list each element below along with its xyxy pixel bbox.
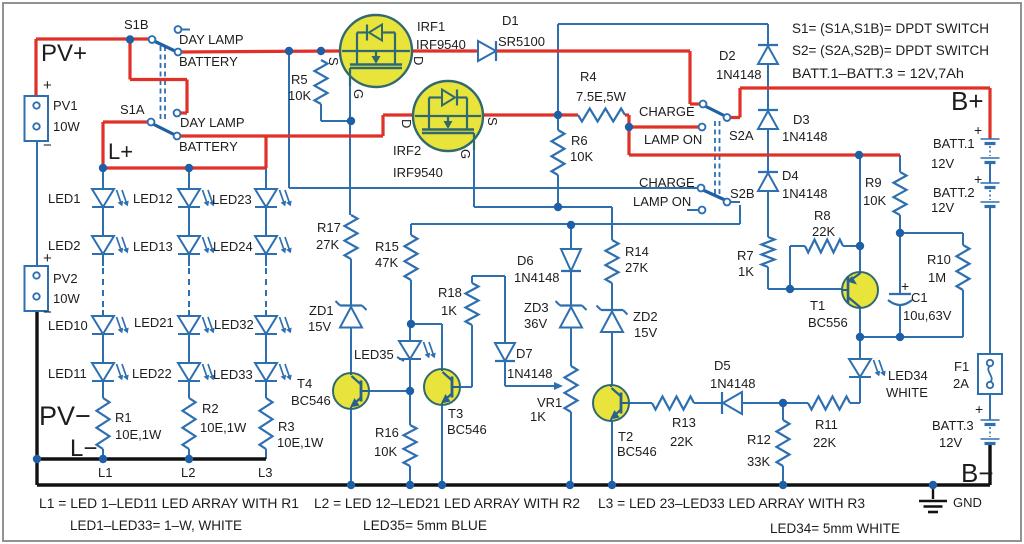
svg-text:L−: L− (70, 435, 97, 462)
svg-text:R6: R6 (571, 133, 588, 148)
svg-text:1N4148: 1N4148 (710, 376, 756, 391)
svg-text:S2A: S2A (729, 128, 754, 143)
svg-text:GND: GND (953, 495, 982, 510)
svg-text:R7: R7 (737, 248, 754, 263)
svg-text:ZD1: ZD1 (309, 303, 334, 318)
svg-text:D4: D4 (782, 168, 799, 183)
svg-text:S2B: S2B (730, 186, 755, 201)
svg-text:R15: R15 (375, 239, 399, 254)
svg-text:R12: R12 (747, 432, 771, 447)
svg-text:22K: 22K (812, 224, 835, 239)
svg-text:1N4148: 1N4148 (514, 270, 560, 285)
svg-text:10K: 10K (374, 444, 397, 459)
svg-text:1K: 1K (738, 264, 754, 279)
svg-text:R5: R5 (291, 72, 308, 87)
svg-text:LED12: LED12 (133, 191, 173, 206)
svg-text:27K: 27K (316, 237, 339, 252)
svg-text:10E,1W: 10E,1W (200, 420, 247, 435)
svg-text:36V: 36V (524, 316, 547, 331)
svg-text:+: + (901, 278, 909, 294)
svg-text:BC546: BC546 (291, 393, 331, 408)
svg-text:10W: 10W (53, 291, 80, 306)
svg-text:DAY LAMP: DAY LAMP (180, 115, 245, 130)
svg-text:DAY LAMP: DAY LAMP (179, 32, 244, 47)
svg-text:BATTERY: BATTERY (179, 54, 238, 69)
svg-text:T3: T3 (448, 406, 463, 421)
svg-text:10W: 10W (53, 119, 80, 134)
svg-text:CHARGE: CHARGE (639, 104, 695, 119)
svg-text:LED21: LED21 (134, 315, 174, 330)
svg-text:22K: 22K (670, 434, 693, 449)
svg-text:27K: 27K (625, 260, 648, 275)
svg-text:LED13: LED13 (133, 239, 173, 254)
svg-text:ZD3: ZD3 (524, 300, 549, 315)
svg-text:−: − (43, 137, 52, 154)
svg-text:BATTERY: BATTERY (179, 139, 238, 154)
svg-text:LED33: LED33 (213, 367, 253, 382)
svg-text:PV+: PV+ (41, 40, 87, 67)
svg-text:F1: F1 (954, 359, 969, 374)
svg-text:R9: R9 (865, 175, 882, 190)
svg-text:S1B: S1B (124, 17, 149, 32)
svg-text:47K: 47K (375, 255, 398, 270)
svg-text:IRF2: IRF2 (393, 143, 421, 158)
svg-text:R13: R13 (672, 415, 696, 430)
svg-text:S: S (326, 57, 341, 66)
svg-text:WHITE: WHITE (886, 385, 928, 400)
svg-text:+: + (43, 250, 52, 267)
svg-text:ZD2: ZD2 (633, 309, 658, 324)
svg-text:S: S (485, 117, 500, 126)
svg-text:LED2: LED2 (48, 238, 81, 253)
svg-text:L1 = LED 1–LED11 LED ARRAY WIT: L1 = LED 1–LED11 LED ARRAY WITH R1 (39, 496, 299, 511)
svg-text:B+: B+ (951, 86, 984, 116)
svg-text:CHARGE: CHARGE (639, 175, 695, 190)
svg-text:L2: L2 (181, 465, 195, 480)
svg-text:D3: D3 (793, 112, 810, 127)
svg-text:R18: R18 (438, 285, 462, 300)
svg-text:BATT.3: BATT.3 (932, 418, 974, 433)
svg-text:B−: B− (961, 458, 994, 488)
svg-text:BATT.2: BATT.2 (933, 185, 975, 200)
svg-text:7.5E,5W: 7.5E,5W (576, 89, 627, 104)
svg-text:1K: 1K (530, 409, 546, 424)
svg-text:SR5100: SR5100 (498, 34, 545, 49)
svg-text:R17: R17 (317, 220, 341, 235)
svg-text:IRF1: IRF1 (417, 19, 445, 34)
svg-text:1M: 1M (928, 270, 946, 285)
svg-text:10K: 10K (288, 88, 311, 103)
svg-text:D6: D6 (517, 253, 534, 268)
svg-text:LED35: LED35 (354, 347, 394, 362)
svg-text:+: + (43, 77, 52, 94)
svg-text:PV2: PV2 (53, 271, 78, 286)
svg-text:C1: C1 (911, 290, 928, 305)
svg-text:R11: R11 (815, 417, 838, 432)
svg-text:LED34: LED34 (888, 368, 928, 383)
svg-text:1K: 1K (441, 303, 457, 318)
svg-text:S2= (S2A,S2B)= DPDT SWITCH: S2= (S2A,S2B)= DPDT SWITCH (792, 43, 989, 58)
svg-text:LED32: LED32 (214, 317, 254, 332)
svg-text:R10: R10 (927, 252, 951, 267)
svg-text:G: G (458, 149, 473, 159)
svg-text:12V: 12V (939, 435, 962, 450)
svg-text:D1: D1 (502, 13, 519, 28)
svg-text:LED35= 5mm BLUE: LED35= 5mm BLUE (363, 518, 487, 533)
svg-text:1N4148: 1N4148 (782, 129, 828, 144)
svg-text:LED1: LED1 (48, 191, 81, 206)
svg-text:LED23: LED23 (212, 192, 252, 207)
svg-text:D5: D5 (714, 358, 731, 373)
svg-text:BATT.1: BATT.1 (933, 136, 975, 151)
svg-text:R3: R3 (278, 419, 295, 434)
svg-text:IRF9540: IRF9540 (393, 165, 443, 180)
svg-text:D7: D7 (516, 346, 533, 361)
svg-text:PV−: PV− (39, 401, 91, 431)
svg-text:S1= (S1A,S1B)= DPDT SWITCH: S1= (S1A,S1B)= DPDT SWITCH (792, 21, 989, 36)
svg-text:1N4148: 1N4148 (507, 366, 553, 381)
svg-text:R1: R1 (115, 410, 132, 425)
svg-text:10K: 10K (570, 149, 593, 164)
svg-text:G: G (351, 89, 366, 99)
svg-text:L3: L3 (258, 465, 272, 480)
svg-text:+: + (975, 401, 983, 417)
svg-text:LAMP ON: LAMP ON (644, 132, 702, 147)
svg-text:BATT.1–BATT.3 = 12V,7Ah: BATT.1–BATT.3 = 12V,7Ah (792, 66, 964, 81)
svg-text:R2: R2 (202, 401, 219, 416)
svg-text:LED10: LED10 (48, 318, 88, 333)
svg-text:+: + (974, 171, 982, 187)
svg-text:R4: R4 (580, 69, 597, 84)
svg-text:LED1–LED33= 1–W, WHITE: LED1–LED33= 1–W, WHITE (70, 518, 242, 533)
svg-text:1N4148: 1N4148 (716, 67, 762, 82)
svg-text:LED34= 5mm WHITE: LED34= 5mm WHITE (770, 521, 900, 536)
svg-text:L1: L1 (98, 465, 112, 480)
svg-text:12V: 12V (931, 156, 954, 171)
svg-text:LED22: LED22 (132, 366, 172, 381)
svg-text:D: D (411, 56, 426, 65)
svg-text:15V: 15V (634, 325, 657, 340)
svg-text:+: + (974, 122, 982, 138)
svg-text:S1A: S1A (120, 102, 145, 117)
svg-text:R14: R14 (625, 244, 649, 259)
svg-text:PV1: PV1 (53, 98, 78, 113)
svg-text:1N4148: 1N4148 (782, 186, 828, 201)
svg-text:12V: 12V (931, 200, 954, 215)
svg-text:D2: D2 (719, 48, 736, 63)
svg-text:T2: T2 (618, 429, 633, 444)
svg-text:33K: 33K (747, 454, 770, 469)
svg-text:BC556: BC556 (808, 315, 848, 330)
svg-text:10E,1W: 10E,1W (277, 435, 324, 450)
svg-text:22K: 22K (813, 435, 836, 450)
svg-text:L2 = LED 12–LED21 LED ARRAY WI: L2 = LED 12–LED21 LED ARRAY WITH R2 (314, 496, 580, 511)
svg-text:R8: R8 (814, 208, 831, 223)
svg-text:L+: L+ (108, 139, 133, 164)
svg-text:10E,1W: 10E,1W (115, 427, 162, 442)
svg-text:LAMP ON: LAMP ON (633, 194, 691, 209)
svg-text:R16: R16 (375, 425, 399, 440)
svg-text:L3 = LED 23–LED33 LED ARRAY WI: L3 = LED 23–LED33 LED ARRAY WITH R3 (598, 496, 865, 511)
svg-text:D: D (399, 119, 414, 128)
svg-text:VR1: VR1 (537, 395, 562, 410)
svg-text:10u,63V: 10u,63V (903, 308, 952, 323)
svg-text:BC546: BC546 (447, 422, 487, 437)
svg-text:LED11: LED11 (48, 366, 87, 381)
svg-text:2A: 2A (953, 376, 969, 391)
svg-text:BC546: BC546 (617, 444, 657, 459)
svg-text:15V: 15V (308, 319, 331, 334)
svg-text:−: − (43, 304, 52, 321)
svg-text:LED24: LED24 (213, 239, 253, 254)
svg-text:10K: 10K (863, 193, 886, 208)
svg-text:T4: T4 (297, 376, 312, 391)
svg-text:T1: T1 (810, 298, 825, 313)
svg-text:IRF9540: IRF9540 (416, 37, 466, 52)
